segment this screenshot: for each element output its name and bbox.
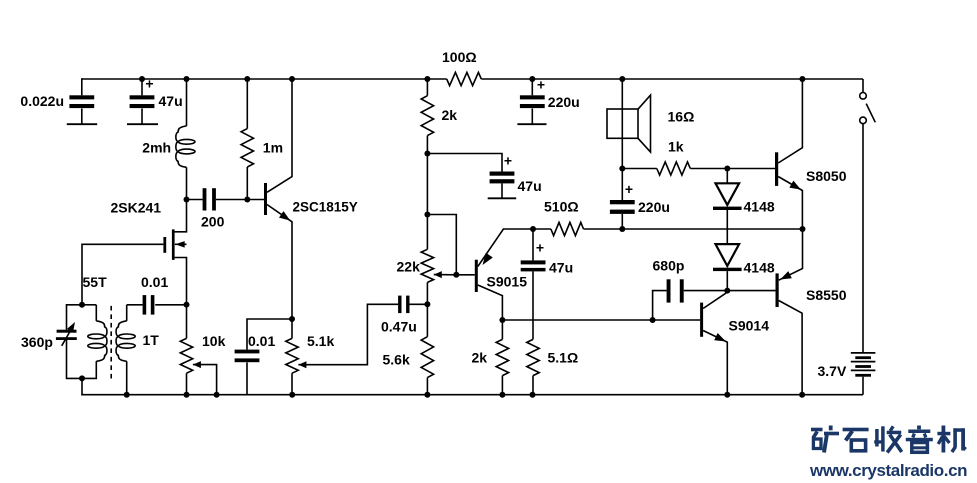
- wire switch to battery: [862, 124, 864, 353]
- svg-text:5.6k: 5.6k: [383, 352, 410, 368]
- arrow Q5 emitter: [789, 181, 801, 190]
- svg-text:2SK241: 2SK241: [111, 200, 162, 216]
- capacitor C8 47u: [490, 172, 515, 176]
- capacitor C11 220u: [520, 95, 545, 99]
- wire L1 bottom lead: [186, 167, 188, 199]
- inductor T1 primary 55T: [95, 305, 97, 321]
- svg-text:360p: 360p: [21, 334, 53, 350]
- wire 22k wiper: [434, 274, 457, 276]
- svg-text:510Ω: 510Ω: [544, 199, 579, 215]
- wire battery to ground rail: [862, 377, 864, 395]
- node 5.1ohm / ground rail: [530, 392, 536, 398]
- arrow Q4 emitter: [714, 333, 726, 341]
- arrow C4 variable arrow: [62, 328, 72, 346]
- arrow Q1 (points to channel): [175, 241, 185, 248]
- wire Q1 source lead: [175, 258, 187, 305]
- node C9 47u / emitter wire: [530, 226, 536, 232]
- node driver rail / C13 680p: [650, 317, 656, 323]
- transistor Q4 S9014 base bar: [700, 303, 703, 337]
- wire Q1 drain lead: [175, 200, 187, 232]
- wire C9 bottom / R 5.1ohm: [532, 271, 534, 339]
- wire top supply rail left segment: [82, 78, 447, 80]
- svg-text:5.1Ω: 5.1Ω: [548, 350, 579, 366]
- capacitor C3 200: [203, 188, 207, 210]
- svg-text:S8550: S8550: [806, 287, 847, 303]
- wire node to C3 200: [187, 199, 203, 201]
- node Q2 collector / top rail: [289, 76, 295, 82]
- transistor Q2 2SC1815Y base bar: [264, 183, 267, 215]
- wire C12 bottom lead: [621, 214, 623, 229]
- ground bar under C2: [127, 123, 158, 125]
- wire C2 top lead: [141, 79, 143, 95]
- ground bar under C1: [67, 123, 97, 125]
- wire Q2 collector: [267, 79, 292, 192]
- capacitor C7 0.47u: [398, 296, 401, 314]
- svg-text:100Ω: 100Ω: [442, 49, 477, 65]
- svg-text:S9015: S9015: [487, 274, 528, 290]
- node Q2 emitter / C6 0.01: [289, 316, 295, 322]
- svg-text:200: 200: [201, 214, 225, 230]
- svg-text:220u: 220u: [548, 94, 580, 110]
- logo text kuang-shi-shou-yin-ji: [811, 428, 823, 432]
- wire Q3 emitter: [478, 229, 533, 267]
- wire secondary top to C5 0.01: [127, 304, 143, 306]
- speaker LS1 box: [607, 109, 638, 138]
- arrow Q6 emitter (PNP points in): [780, 271, 792, 279]
- wire Q4 collector: [703, 292, 727, 308]
- svg-text:680p: 680p: [653, 258, 685, 274]
- svg-text:+: +: [145, 76, 153, 92]
- resistor R 5.1ohm: [527, 339, 539, 375]
- resistor R 22k (pot): [421, 249, 433, 282]
- wire diode chain upper: [726, 169, 728, 184]
- node top rail / C2 47u: [139, 76, 145, 82]
- transistor Q1 2SK241 gate bar: [163, 237, 166, 253]
- wire C12 top lead: [621, 169, 623, 201]
- node Q5 collector / top rail: [799, 76, 805, 82]
- capacitor C1 0.022u: [69, 95, 94, 99]
- wire node B to S9015 base: [427, 215, 456, 275]
- wire diode chain lower: [726, 271, 728, 291]
- resistor R 510ohm: [551, 222, 584, 235]
- node output emitters: [800, 226, 806, 232]
- resistor R 2k: [421, 96, 433, 136]
- wire to Q5 base: [727, 168, 775, 170]
- wire C6 bottom lead: [246, 362, 248, 394]
- svg-text:4148: 4148: [744, 199, 775, 215]
- svg-text:www.crystalradio.cn: www.crystalradio.cn: [809, 461, 967, 480]
- wire Q1 substrate lead: [175, 243, 187, 245]
- wire C11 lower lead: [531, 109, 533, 125]
- wire Q6 emitter: [779, 229, 803, 280]
- wire 1k to diode node: [690, 168, 727, 170]
- wire 10k wiper: [193, 365, 217, 395]
- svg-text:3.7V: 3.7V: [818, 363, 847, 379]
- wire Q1 gate wire: [82, 244, 163, 304]
- node A (2k/22k/C8): [424, 151, 430, 157]
- svg-text:+: +: [625, 181, 633, 197]
- wire R 5.1k bottom lead: [291, 373, 293, 395]
- svg-text:1k: 1k: [668, 139, 684, 155]
- transistor Q5 S8050 base bar: [775, 152, 778, 186]
- switch SW1 lever: [866, 104, 875, 123]
- wire C2 lower lead: [141, 109, 143, 125]
- svg-text:0.01: 0.01: [248, 333, 275, 349]
- arrow Q3 emitter (PNP points in): [483, 253, 493, 265]
- svg-text:0.47u: 0.47u: [381, 319, 417, 335]
- wire 5.6k top lead: [426, 304, 428, 336]
- ground bar under C11: [517, 123, 546, 125]
- arrow 22k wiper: [434, 271, 442, 278]
- capacitor C4 360p (variable): [57, 330, 77, 333]
- capacitor C9 47u: [521, 260, 546, 264]
- wire Q3 collector: [478, 285, 503, 320]
- svg-text:0.01: 0.01: [141, 274, 168, 290]
- svg-text:0.022u: 0.022u: [20, 93, 64, 109]
- wire Q5 emitter: [778, 177, 802, 230]
- node 5.1k / ground rail: [289, 392, 295, 398]
- wire primary bottom lead: [82, 361, 96, 378]
- wire node A down: [426, 154, 428, 215]
- capacitor C13 680p: [667, 279, 671, 302]
- wire Q4 emitter: [703, 331, 727, 395]
- node drain / C3 200: [184, 197, 190, 203]
- switch SW1 contact 1: [860, 93, 867, 100]
- node Q6 collector / ground rail: [799, 392, 805, 398]
- switch SW1 contact 2: [860, 117, 867, 124]
- wire 5.6k bottom lead: [426, 378, 428, 395]
- core dashed line T1: [110, 306, 112, 379]
- node R10k / ground rail: [184, 392, 190, 398]
- wire bottom ground rail: [81, 394, 863, 396]
- svg-text:2k: 2k: [472, 350, 488, 366]
- ground bar under C8: [488, 197, 517, 199]
- wire driver rail y320: [502, 319, 700, 321]
- node top rail / speaker: [619, 76, 625, 82]
- wire C5 to source node: [155, 304, 186, 306]
- capacitor C2 47u (electrolytic): [130, 95, 155, 99]
- wire top rail corner to switch: [862, 79, 864, 93]
- resistor R 10k (pot): [180, 338, 192, 373]
- wire R 5.1k top lead: [291, 319, 293, 338]
- diode D2 4148: [716, 244, 740, 266]
- wire diode chain middle: [726, 210, 728, 244]
- svg-text:1m: 1m: [263, 140, 283, 156]
- wire diode node to Q6 base: [727, 290, 775, 292]
- wire top supply rail right segment: [481, 78, 863, 80]
- arrow Q2 emitter: [279, 211, 290, 221]
- resistor R 100ohm (in top rail): [447, 72, 482, 85]
- wire node A to C8 47u: [427, 154, 502, 172]
- svg-text:4148: 4148: [744, 260, 775, 276]
- transistor Q1 channel bar: [172, 229, 175, 260]
- capacitor C12 220u: [610, 200, 635, 204]
- capacitor C5 0.01: [143, 295, 147, 315]
- node Q4 emitter / ground rail: [724, 392, 730, 398]
- battery BT1 3.7V: [851, 352, 876, 354]
- arrow 10k wiper: [193, 361, 201, 368]
- svg-text:2SC1815Y: 2SC1815Y: [293, 200, 358, 215]
- arrow 5.1k wiper: [298, 361, 306, 368]
- wire secondary bottom to ground rail: [126, 361, 128, 394]
- node top rail / C11 220u: [529, 76, 535, 82]
- node base Q2 / R 1m: [244, 197, 250, 203]
- svg-text:47u: 47u: [159, 93, 183, 109]
- wire to R 1k: [622, 168, 657, 170]
- svg-text:22k: 22k: [397, 259, 421, 275]
- node top rail / L1 2mh: [184, 76, 190, 82]
- resistor R 1k: [657, 162, 691, 175]
- wire 22k lead: [426, 215, 428, 250]
- diode D1 4148: [716, 183, 740, 205]
- svg-text:47u: 47u: [549, 260, 573, 276]
- node wiper / base: [453, 272, 459, 278]
- wire L1 top lead: [186, 79, 188, 126]
- wire 2k(2) lead: [501, 320, 503, 339]
- inductor T1 secondary 1T: [116, 321, 127, 361]
- wire 2k(2) bottom lead: [501, 376, 503, 395]
- wire C3 to base node: [216, 199, 264, 201]
- resistor R 2k (2): [496, 339, 508, 375]
- resistor R 1m: [241, 129, 253, 167]
- node tank bottom: [79, 375, 85, 381]
- node diode bottom / Q6 base: [724, 288, 730, 294]
- svg-text:S9014: S9014: [729, 318, 770, 334]
- node 2k(2) / ground rail: [499, 392, 505, 398]
- transistor Q3 S9015 base bar: [475, 260, 478, 292]
- wire R 1m top lead: [246, 79, 248, 129]
- wire 2k top lead: [426, 79, 428, 96]
- node speaker / C12 / 1k: [619, 166, 625, 172]
- node C10 bottom: [619, 226, 625, 232]
- wire Q6 collector: [779, 301, 802, 395]
- wire tank bottom to ground rail: [81, 378, 83, 394]
- node B (to base wire): [424, 212, 430, 218]
- svg-text:+: +: [536, 240, 544, 256]
- wire R 10k bottom lead: [186, 373, 188, 395]
- svg-text:5.1k: 5.1k: [307, 333, 334, 349]
- node 5.6k / ground rail: [424, 392, 430, 398]
- svg-text:10k: 10k: [202, 333, 226, 349]
- node top rail / R 1m: [244, 76, 250, 82]
- svg-text:2mh: 2mh: [142, 140, 171, 156]
- wire C13 left lead: [653, 291, 667, 320]
- wire 5.1k wiper to C7: [298, 304, 398, 364]
- svg-text:+: +: [504, 153, 512, 169]
- wire R 10k top lead: [186, 305, 188, 339]
- node tank top: [79, 302, 85, 308]
- wire to Q3 base: [456, 274, 475, 276]
- node diode top / Q5 base: [724, 166, 730, 172]
- wire tank top to C4 360p: [67, 305, 83, 330]
- wire C4 bottom lead: [67, 340, 83, 378]
- wire R510 to C10 node: [584, 228, 623, 230]
- svg-text:2k: 2k: [442, 107, 458, 123]
- svg-text:55T: 55T: [83, 274, 108, 290]
- node C7 / 5.6k: [424, 301, 430, 307]
- wire primary top lead: [82, 304, 96, 306]
- wire speaker drop: [621, 79, 623, 169]
- svg-text:16Ω: 16Ω: [668, 109, 695, 125]
- wire C6 top lead: [247, 319, 292, 350]
- wire C9 top lead: [532, 229, 534, 260]
- capacitor C6 0.01: [235, 350, 260, 354]
- transistor Q6 S8550 base bar: [776, 273, 779, 307]
- inductor L1 2mh: [176, 126, 187, 167]
- wire Q5 collector: [778, 79, 802, 163]
- wire C1 lower lead: [81, 109, 83, 125]
- wire R 1m bottom lead: [246, 167, 248, 200]
- wire 22k bottom lead: [426, 282, 428, 304]
- svg-text:47u: 47u: [518, 178, 542, 194]
- wire C8 bottom lead: [501, 183, 503, 198]
- wire C13 to diode node: [684, 290, 728, 292]
- wire 2k to node A: [426, 136, 428, 154]
- svg-text:S8050: S8050: [806, 168, 847, 184]
- svg-text:+: +: [537, 77, 545, 93]
- svg-text:220u: 220u: [638, 199, 670, 215]
- node source / R 10k: [184, 302, 190, 308]
- node Q3 collector / 2k: [499, 317, 505, 323]
- node secondary / ground rail: [124, 392, 130, 398]
- wire C11 top lead: [531, 79, 533, 95]
- speaker LS1 cone: [638, 95, 651, 152]
- wire C7 right lead: [410, 303, 428, 305]
- wire output line to power stage: [622, 228, 802, 230]
- node wiper / ground rail: [214, 392, 220, 398]
- resistor R 5.1k (pot): [286, 338, 298, 373]
- resistor R 5.6k: [421, 337, 433, 378]
- wire 5.1ohm bottom lead: [532, 376, 534, 395]
- wire left drop to C 0.022u: [81, 78, 83, 95]
- node top rail / R 2k: [424, 76, 430, 82]
- wire Q2 emitter: [267, 205, 292, 320]
- svg-text:1T: 1T: [143, 332, 160, 348]
- wire emitter node to R 510: [533, 228, 551, 230]
